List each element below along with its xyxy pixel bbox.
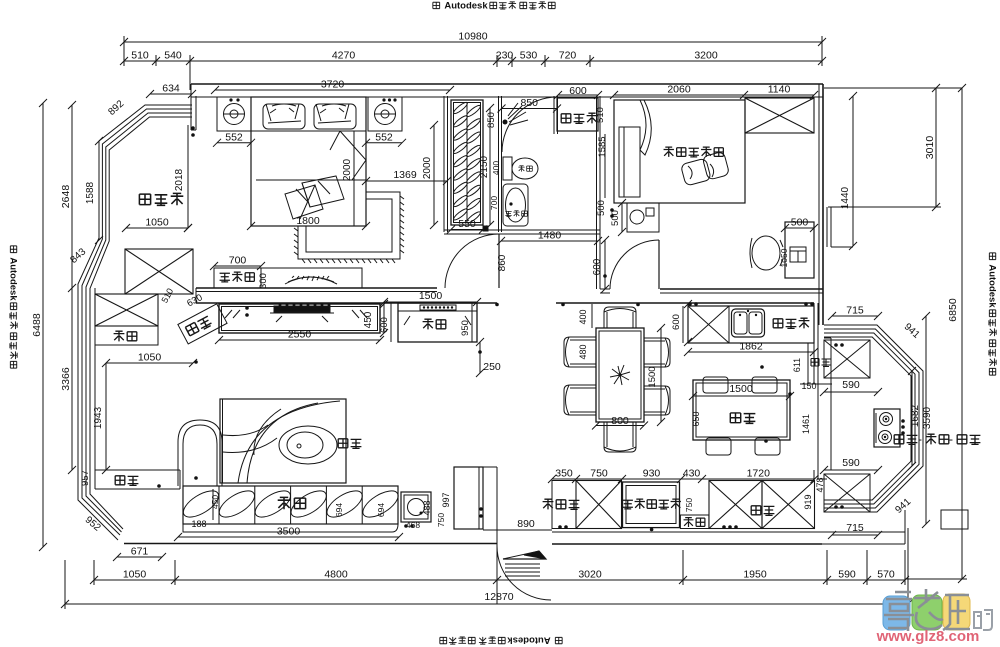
svg-text:400: 400 bbox=[491, 161, 501, 175]
svg-text:488: 488 bbox=[422, 500, 432, 515]
dim 600 counter line bbox=[682, 306, 684, 343]
svg-text:850: 850 bbox=[486, 112, 497, 128]
svg-text:997: 997 bbox=[441, 492, 451, 507]
xbox shoe cabinet bbox=[576, 481, 622, 529]
chaise lounge arm bbox=[178, 420, 222, 486]
dining chair left2 bbox=[564, 385, 596, 415]
children door arc bbox=[610, 240, 659, 289]
svg-text:715: 715 bbox=[846, 305, 864, 317]
svg-text:510: 510 bbox=[595, 107, 606, 123]
wall bottom-left segment bbox=[124, 543, 497, 545]
watermark right: Autodesk education banner (vertical) bbox=[987, 253, 998, 375]
left bay window band bbox=[78, 105, 192, 540]
bedroom door arc bbox=[445, 234, 499, 288]
sofa label bbox=[278, 497, 291, 510]
svg-text:2018: 2018 bbox=[174, 168, 185, 191]
dim 600 piano bbox=[390, 303, 392, 342]
node dots bedroom west wall bbox=[191, 126, 195, 130]
dim 1500 dining bbox=[660, 328, 662, 422]
dressing counter with mirror bbox=[261, 268, 362, 288]
svg-text:www.glz8.com: www.glz8.com bbox=[876, 628, 980, 645]
dim cabinets chain bbox=[552, 478, 815, 480]
dim 2000 bed bbox=[353, 131, 355, 226]
svg-text:860: 860 bbox=[497, 254, 508, 271]
svg-text:3500: 3500 bbox=[277, 526, 301, 538]
dim 450 tv bbox=[383, 304, 385, 333]
dim 850 bath bbox=[502, 108, 558, 110]
dim 1943 vertical bbox=[105, 363, 107, 470]
svg-text:850: 850 bbox=[520, 97, 538, 109]
dim top overall 10980 bbox=[124, 41, 822, 43]
washbasin bbox=[503, 184, 528, 226]
node dot bench bbox=[194, 360, 198, 364]
dim 634 top-left bbox=[150, 93, 192, 95]
tea table label bbox=[338, 439, 348, 448]
dim right ext bbox=[824, 87, 941, 89]
xbox bay counter bottom bbox=[824, 474, 870, 512]
svg-text:1588: 1588 bbox=[85, 181, 96, 204]
svg-text:1585: 1585 bbox=[597, 136, 608, 157]
dim 400 dining bbox=[591, 304, 593, 328]
sofa seats bbox=[218, 486, 220, 524]
svg-text:510: 510 bbox=[131, 50, 149, 62]
svg-text:1480: 1480 bbox=[538, 230, 562, 242]
svg-text:1500: 1500 bbox=[729, 383, 753, 395]
svg-text:350: 350 bbox=[555, 468, 573, 480]
svg-text:700: 700 bbox=[489, 196, 499, 210]
xbox bay counter top bbox=[824, 340, 870, 378]
bunk bed label bbox=[664, 147, 674, 157]
shower head bbox=[503, 120, 508, 125]
dim laundry 600 bbox=[558, 94, 598, 96]
children nightstand bbox=[627, 203, 659, 232]
node dots corridor bbox=[636, 303, 640, 307]
column bottom right bbox=[941, 510, 968, 529]
entry door jamb line bbox=[496, 467, 498, 546]
svg-text:Autodesk: Autodesk bbox=[507, 635, 551, 646]
dim 671 bottom-left bbox=[117, 556, 162, 558]
bunk bed pillows bbox=[655, 257, 657, 259]
watermark left: Autodesk education banner (vertical) bbox=[8, 246, 19, 368]
dim 3500 sofa bbox=[178, 536, 399, 538]
watermark bottom: Autodesk education banner (rotated) bbox=[440, 635, 562, 646]
wall left inner face bbox=[94, 288, 96, 470]
svg-text:1050: 1050 bbox=[138, 352, 162, 364]
svg-text:Autodesk: Autodesk bbox=[987, 264, 998, 308]
dim 2150 closet bbox=[489, 108, 491, 225]
svg-text:890: 890 bbox=[517, 518, 535, 530]
stove label bbox=[894, 435, 904, 444]
svg-text:1050: 1050 bbox=[779, 248, 789, 267]
entry porch symbol bbox=[503, 551, 546, 559]
svg-text:-: - bbox=[918, 432, 922, 446]
dim 250 piano bbox=[479, 342, 481, 373]
wine cabinet bbox=[454, 467, 483, 529]
dim 600 children door bbox=[604, 240, 606, 289]
svg-text:1050: 1050 bbox=[145, 217, 169, 229]
bedside table left bbox=[217, 97, 251, 131]
dim extension lines top-mid bbox=[496, 55, 498, 67]
svg-text:1500: 1500 bbox=[419, 290, 443, 302]
wall right upper bbox=[818, 84, 820, 207]
dim left overall 6488 bbox=[42, 103, 44, 547]
closet bbox=[451, 100, 483, 225]
wall children west bbox=[596, 96, 598, 289]
dim 700 dressing table bbox=[214, 265, 261, 267]
svg-text:3010: 3010 bbox=[924, 136, 936, 160]
fridge bbox=[623, 482, 680, 528]
dim bottom chain bbox=[94, 579, 905, 581]
dim bedroom 3720 bbox=[215, 89, 450, 91]
svg-text:540: 540 bbox=[164, 50, 182, 62]
washing machine bbox=[557, 98, 598, 131]
wall top bbox=[191, 83, 823, 85]
svg-text:1862: 1862 bbox=[739, 341, 763, 353]
svg-text:650: 650 bbox=[691, 411, 701, 426]
dim 590 bay bottom bbox=[824, 469, 878, 471]
bedside table right bbox=[368, 97, 402, 131]
tv cabinet marks bbox=[225, 310, 367, 318]
svg-text:634: 634 bbox=[162, 83, 180, 95]
svg-text:3020: 3020 bbox=[578, 569, 602, 581]
svg-text:919: 919 bbox=[803, 494, 813, 509]
dim 611 kitchen bbox=[807, 343, 809, 384]
node dots cabinets bbox=[558, 525, 562, 529]
svg-text:188: 188 bbox=[191, 519, 206, 529]
dining chair right2 bbox=[644, 386, 670, 415]
bench seat lower bbox=[95, 469, 180, 471]
svg-text:600: 600 bbox=[592, 258, 603, 275]
window band right bbox=[818, 207, 820, 247]
dim bay bottom 715 bbox=[832, 534, 878, 536]
svg-text:150: 150 bbox=[801, 381, 816, 391]
svg-text:2000: 2000 bbox=[342, 158, 353, 181]
svg-text:750: 750 bbox=[590, 468, 608, 480]
wall bedroom east / closet bbox=[443, 96, 445, 232]
tea table bbox=[220, 399, 346, 483]
logo char lao bbox=[914, 589, 943, 629]
bunk bed mattress bbox=[619, 127, 640, 197]
kitchen cabinet label bbox=[751, 506, 761, 515]
svg-text:1369: 1369 bbox=[393, 169, 417, 181]
bed cushions bbox=[302, 176, 344, 207]
svg-text:590: 590 bbox=[842, 457, 860, 469]
tea table ellipse bbox=[279, 426, 337, 464]
dim bay top 715 bbox=[832, 315, 878, 317]
shoe bench label bbox=[543, 499, 554, 510]
tv cabinet bbox=[219, 304, 380, 333]
svg-text:590: 590 bbox=[838, 569, 856, 581]
dim 1461 kitchen bbox=[817, 384, 819, 470]
svg-text:700: 700 bbox=[229, 255, 247, 267]
bed bbox=[251, 97, 366, 226]
svg-text:530: 530 bbox=[520, 50, 538, 62]
svg-text:4270: 4270 bbox=[332, 50, 356, 62]
svg-text:430: 430 bbox=[683, 468, 701, 480]
logo char ba bbox=[974, 610, 992, 630]
svg-text:3200: 3200 bbox=[694, 50, 718, 62]
island dots bbox=[760, 365, 764, 369]
svg-text:1440: 1440 bbox=[840, 186, 851, 209]
dim 1500 piano bbox=[384, 301, 477, 303]
svg-text:2000: 2000 bbox=[422, 156, 433, 179]
dishwasher label bbox=[773, 319, 783, 328]
wall bath/laundry divider bbox=[553, 96, 555, 134]
sink counter bbox=[688, 306, 814, 343]
kitchen bay counter edge bbox=[830, 338, 832, 470]
tv set bbox=[274, 306, 330, 312]
island bbox=[693, 380, 790, 440]
dim 500 nightstand bbox=[621, 203, 623, 232]
dim extension lines top-left bbox=[123, 36, 125, 66]
logo tile yellow bbox=[943, 594, 970, 630]
dim 800 dining bbox=[596, 425, 644, 427]
xbox kitchen cabinet row bbox=[709, 481, 762, 529]
wine nook top line bbox=[454, 466, 497, 468]
bunk bed bbox=[614, 100, 745, 203]
dim right 3010 bbox=[935, 88, 937, 207]
dim left 2648/3366 bbox=[71, 105, 73, 470]
toilet bbox=[503, 157, 512, 180]
wall bottom-right segment bbox=[552, 531, 905, 533]
dim 600 dining-sink bbox=[687, 304, 689, 342]
svg-text:1800: 1800 bbox=[296, 215, 320, 227]
wall bath west bbox=[498, 96, 500, 232]
island label bbox=[730, 413, 740, 423]
svg-text:2060: 2060 bbox=[667, 84, 691, 96]
side table square bbox=[401, 492, 431, 522]
entry door arc bbox=[497, 546, 551, 600]
bed sheet line bbox=[251, 130, 366, 132]
svg-text:500: 500 bbox=[610, 210, 621, 226]
dim extension bottom bbox=[93, 560, 95, 585]
dim 2550 tv bbox=[219, 339, 380, 341]
ledge line entry-left bbox=[483, 529, 552, 531]
svg-text:570: 570 bbox=[877, 569, 895, 581]
svg-text:552: 552 bbox=[225, 131, 243, 143]
svg-text:950: 950 bbox=[460, 320, 471, 336]
svg-text:450: 450 bbox=[363, 311, 374, 328]
svg-text:1140: 1140 bbox=[768, 84, 791, 96]
piano label bbox=[423, 319, 434, 330]
svg-text:-: - bbox=[949, 432, 953, 446]
logo tile green bbox=[912, 595, 942, 630]
wall children bottom bbox=[600, 288, 610, 290]
dim children room 2060/1140 bbox=[614, 94, 814, 96]
dining chair top bbox=[604, 307, 636, 328]
dim 2000 closet side bbox=[433, 125, 435, 225]
children door leaf bbox=[658, 240, 660, 289]
svg-text:671: 671 bbox=[131, 546, 149, 558]
svg-text:720: 720 bbox=[559, 50, 577, 62]
dim top chain row2 bbox=[124, 60, 822, 62]
svg-text:590: 590 bbox=[842, 379, 860, 391]
dim right 1440 bbox=[852, 96, 854, 246]
svg-text:600: 600 bbox=[671, 314, 682, 330]
dim 552 right bbox=[366, 142, 402, 144]
sink bbox=[732, 309, 765, 337]
svg-text:10980: 10980 bbox=[458, 31, 487, 43]
dining flower bbox=[610, 365, 630, 385]
svg-text:600: 600 bbox=[379, 317, 390, 333]
dim 1588 vertical bbox=[98, 141, 100, 240]
dim 550 closet bbox=[451, 229, 483, 231]
svg-text:550: 550 bbox=[458, 218, 476, 230]
svg-text:1050: 1050 bbox=[123, 569, 147, 581]
svg-text:4800: 4800 bbox=[324, 569, 348, 581]
svg-text:468: 468 bbox=[406, 520, 420, 530]
dim bay 3590 bbox=[925, 316, 927, 524]
wall corridor west stub bbox=[195, 288, 197, 303]
dim 1369 bbox=[366, 180, 447, 182]
svg-text:250: 250 bbox=[483, 361, 501, 373]
svg-text:12870: 12870 bbox=[484, 591, 513, 603]
dim 1862 counter bbox=[688, 351, 814, 353]
svg-text:400: 400 bbox=[578, 309, 588, 324]
stove bbox=[874, 409, 900, 447]
watermark top: Autodesk education banner bbox=[433, 1, 555, 12]
svg-text:Autodesk: Autodesk bbox=[444, 1, 488, 12]
tatami label bbox=[139, 194, 150, 205]
svg-text:300: 300 bbox=[258, 273, 269, 289]
dim 2018 vertical bbox=[187, 125, 189, 228]
dim tatami 1050 bbox=[126, 227, 188, 229]
bedroom door leaf bbox=[498, 234, 500, 288]
bay corner dots bbox=[834, 343, 838, 347]
svg-text:1950: 1950 bbox=[743, 569, 767, 581]
dining chair left1 bbox=[564, 337, 596, 367]
dim bay 1682 line bbox=[911, 371, 913, 466]
dim bench 1050 bbox=[106, 362, 193, 364]
pillow right bbox=[314, 104, 356, 129]
dim 1480 corridor bbox=[501, 240, 598, 242]
wall corridor top (bedroom south) bbox=[196, 287, 437, 289]
dim 500 desk bbox=[785, 227, 814, 229]
svg-text:1500: 1500 bbox=[647, 366, 658, 387]
svg-text:1461: 1461 bbox=[801, 414, 811, 434]
svg-text:2150: 2150 bbox=[479, 155, 490, 178]
svg-text:552: 552 bbox=[375, 131, 393, 143]
sofa body bbox=[183, 486, 398, 524]
blanket fold bbox=[330, 131, 366, 180]
svg-text:800: 800 bbox=[611, 415, 629, 427]
svg-text:6850: 6850 bbox=[947, 298, 959, 322]
svg-text:611: 611 bbox=[792, 358, 802, 372]
svg-text:3590: 3590 bbox=[922, 406, 933, 429]
svg-text:230: 230 bbox=[496, 50, 514, 62]
svg-text:2648: 2648 bbox=[60, 185, 72, 209]
logo char gao bbox=[884, 592, 914, 631]
dim 1800 bed bbox=[251, 225, 366, 227]
flue box bbox=[680, 515, 709, 529]
svg-text:6488: 6488 bbox=[31, 313, 43, 337]
svg-text:450: 450 bbox=[210, 495, 220, 509]
svg-text:750: 750 bbox=[684, 498, 694, 512]
svg-text:694: 694 bbox=[334, 503, 344, 517]
pillow left bbox=[263, 104, 305, 129]
rug bedroom bbox=[298, 192, 400, 259]
dim 1500 island bbox=[693, 395, 790, 397]
dim 552 left bbox=[217, 142, 251, 144]
logo tile blue bbox=[883, 596, 910, 630]
svg-text:480: 480 bbox=[578, 344, 588, 359]
dining table bbox=[596, 328, 644, 422]
island stools bbox=[703, 377, 728, 393]
svg-text:500: 500 bbox=[791, 217, 809, 229]
bench xbox left bbox=[95, 294, 158, 326]
children wardrobe bbox=[745, 98, 814, 133]
dim bottom overall 12870 bbox=[65, 603, 908, 605]
svg-text:1720: 1720 bbox=[747, 468, 771, 480]
dim 590 bay top bbox=[824, 391, 878, 393]
svg-text:930: 930 bbox=[643, 468, 661, 480]
counter pass label 台面 bbox=[811, 359, 819, 367]
dining chair bottom bbox=[604, 422, 636, 452]
piano bbox=[398, 303, 477, 342]
bench seat upper bbox=[95, 326, 158, 345]
svg-text:600: 600 bbox=[569, 85, 587, 97]
wall corridor bottom bbox=[196, 302, 497, 304]
wall bath bottom bbox=[444, 229, 600, 231]
black square bath corner bbox=[483, 226, 488, 231]
cabinet xbox below tatami bbox=[125, 249, 193, 294]
dim 1585 laundry bbox=[604, 134, 606, 198]
svg-text:3366: 3366 bbox=[60, 367, 72, 391]
svg-text:750: 750 bbox=[436, 513, 446, 527]
dim right 6850 bbox=[961, 88, 963, 579]
sofa back bbox=[183, 523, 398, 525]
logo char zhuang bbox=[943, 595, 970, 630]
wall bedroom west bbox=[190, 84, 192, 130]
dim 950 piano bbox=[471, 303, 473, 342]
kitchen bay window band bbox=[824, 325, 923, 512]
desk chair bbox=[752, 236, 780, 270]
round chair arcs bbox=[238, 401, 340, 483]
svg-text:694: 694 bbox=[376, 503, 386, 517]
sofa cushions bbox=[179, 486, 222, 522]
svg-text:500: 500 bbox=[596, 200, 607, 216]
svg-text:Autodesk: Autodesk bbox=[8, 257, 19, 301]
svg-text:2550: 2550 bbox=[288, 329, 312, 341]
xbox sink counter bbox=[688, 306, 729, 343]
dressing table bbox=[214, 268, 261, 288]
desk children bbox=[785, 222, 814, 278]
bath door arc bbox=[502, 97, 557, 152]
wall kitchen west counter line bbox=[813, 303, 815, 384]
dining chair right1 bbox=[644, 338, 670, 367]
